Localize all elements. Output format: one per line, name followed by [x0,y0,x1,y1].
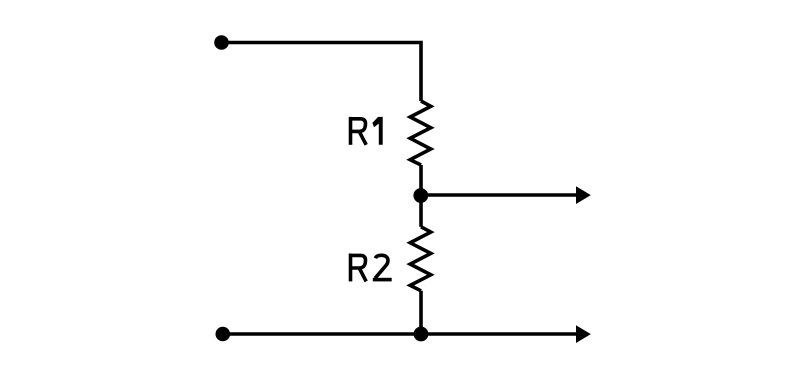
wire node to R2 [419,196,423,227]
wire R1 to node [419,165,423,196]
terminal dot top left [214,35,229,50]
wire R2 to bottom node [419,291,423,334]
wire middle output [421,193,577,197]
terminal dot bottom left [216,327,231,342]
label R2 [351,254,392,282]
resistor R2 [410,227,431,291]
arrowhead bottom output [576,325,591,343]
node A (divider output) [413,188,428,203]
resistor R1 [410,101,431,165]
wire top input [222,43,422,102]
wire bottom [223,332,578,336]
node B (bottom junction) [414,327,429,342]
label R1 [351,117,383,145]
arrowhead middle output [576,186,591,204]
